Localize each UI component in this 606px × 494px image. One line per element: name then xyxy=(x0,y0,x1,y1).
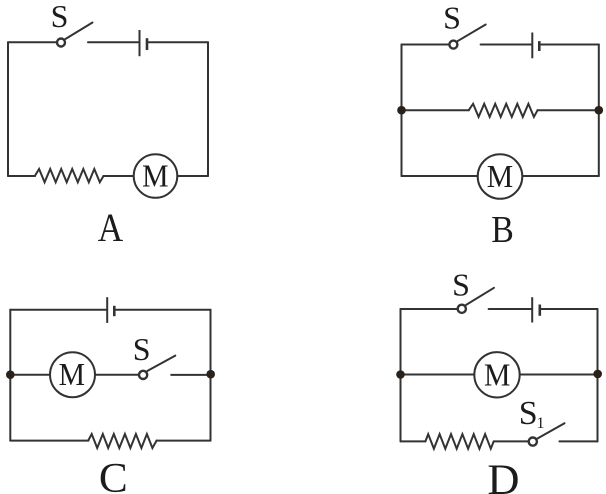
node: junction dot B right xyxy=(595,106,604,115)
wire D bottom-left segment xyxy=(401,440,426,442)
wire C bottom-right segment xyxy=(156,440,210,442)
battery cell (circuit C): short negative plate xyxy=(113,306,116,316)
resistor R (circuit D) xyxy=(425,434,493,449)
wire D left vertical xyxy=(400,309,402,441)
wire D top-left segment xyxy=(401,308,457,310)
svg-text:S: S xyxy=(519,395,538,432)
svg-text:A: A xyxy=(98,206,124,251)
battery cell (circuit A): long positive plate xyxy=(139,30,141,56)
switch S1 (circuit D) xyxy=(529,423,565,446)
wire D resistor-to-switch xyxy=(494,440,528,442)
battery cell (circuit C): long positive plate xyxy=(106,297,108,323)
wire B top-left segment xyxy=(402,44,449,46)
battery cell (circuit D): short negative plate xyxy=(538,305,541,316)
motor M (circuit C) xyxy=(50,352,95,397)
wire A bottom-right segment xyxy=(177,175,208,177)
wire D top-middle segment xyxy=(489,308,532,310)
wire A bottom-left segment xyxy=(8,175,35,177)
wire A right vertical xyxy=(207,42,209,176)
battery cell (circuit B): short negative plate xyxy=(538,41,541,51)
wire C middle-left segment xyxy=(10,374,50,376)
motor M (circuit D) xyxy=(474,352,519,397)
switch S (circuit D) xyxy=(458,288,494,313)
switch S (circuit C) xyxy=(139,356,175,379)
switch S (circuit B) xyxy=(449,25,485,49)
wire C left vertical xyxy=(9,310,11,441)
svg-text:M: M xyxy=(59,356,85,392)
svg-text:S: S xyxy=(51,0,69,34)
svg-text:S: S xyxy=(452,266,470,302)
resistor R (circuit A) xyxy=(35,169,104,182)
wire C right vertical xyxy=(210,310,212,441)
svg-text:B: B xyxy=(491,208,514,250)
wire A left vertical xyxy=(7,42,9,176)
wire C top-right segment xyxy=(116,309,210,311)
battery cell (circuit A): short negative plate xyxy=(146,38,149,50)
wire B right vertical xyxy=(598,45,600,177)
svg-text:D: D xyxy=(487,457,519,494)
wire C motor-to-switch xyxy=(95,374,138,376)
svg-text:1: 1 xyxy=(537,415,545,432)
wire D middle-right segment xyxy=(520,374,598,376)
node: junction dot B left xyxy=(397,106,406,115)
resistor R (circuit C) xyxy=(88,434,156,448)
motor M (circuit B) xyxy=(478,154,523,199)
wire A resistor-to-motor xyxy=(103,175,133,177)
wire B bottom-left segment xyxy=(402,175,478,177)
wire B top-right segment xyxy=(541,44,599,46)
wire B left vertical xyxy=(401,45,403,177)
wire C bottom-left segment xyxy=(10,440,88,442)
wire B bottom-right segment xyxy=(522,175,599,177)
label B (circuit B) xyxy=(491,208,514,250)
wire D middle-left segment xyxy=(401,374,475,376)
motor M (circuit A) xyxy=(134,154,178,198)
svg-text:M: M xyxy=(487,158,513,194)
svg-text:S: S xyxy=(443,0,461,36)
wire B top-middle segment xyxy=(481,44,532,46)
node: junction dot C right xyxy=(206,370,215,379)
wire A top-right segment xyxy=(149,41,208,43)
wire D top-right segment xyxy=(541,308,597,310)
resistor R (circuit B) xyxy=(469,104,538,117)
switch S (circuit A) xyxy=(57,23,93,47)
battery cell (circuit D): long positive plate xyxy=(531,297,533,322)
battery cell (circuit B): long positive plate xyxy=(531,33,533,59)
label A (circuit A) xyxy=(98,206,124,251)
svg-text:S: S xyxy=(133,331,151,367)
wire A top-middle segment xyxy=(88,41,139,43)
wire A top-left segment xyxy=(8,41,56,43)
node: junction dot C left xyxy=(6,370,15,379)
node: junction dot D right xyxy=(593,370,602,379)
svg-text:M: M xyxy=(484,356,510,392)
wire B middle-left segment xyxy=(402,109,469,111)
wire C switch-to-right segment xyxy=(171,374,210,376)
wire B middle-right segment xyxy=(537,109,598,111)
wire C top-left segment xyxy=(10,309,106,311)
svg-text:C: C xyxy=(99,456,128,494)
node: junction dot D left xyxy=(396,370,405,379)
label D (circuit D) xyxy=(487,457,519,494)
svg-text:M: M xyxy=(142,157,168,193)
label C (circuit C) xyxy=(99,456,128,494)
wire D right vertical xyxy=(597,309,599,441)
wire D switch-to-right segment xyxy=(559,440,597,442)
label S1 (circuit D) xyxy=(519,395,545,432)
